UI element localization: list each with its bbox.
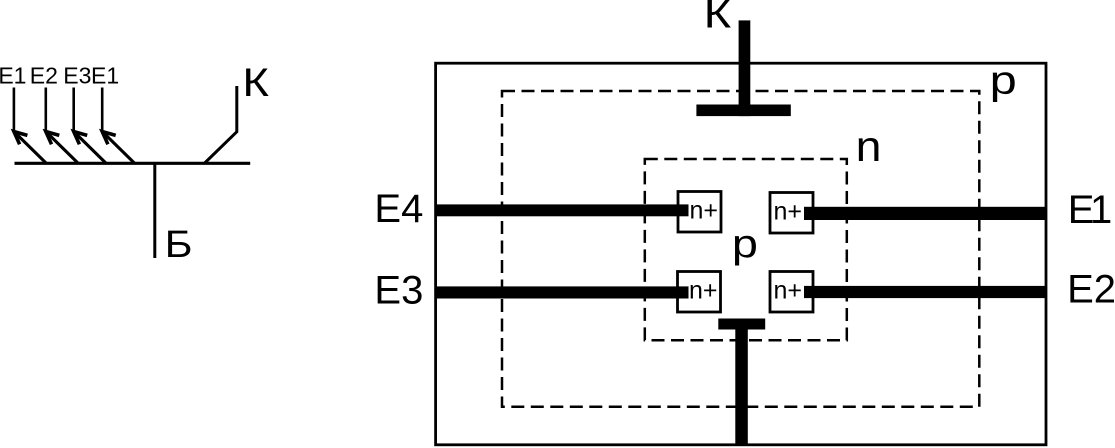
emitter lead wire 3 <box>72 88 75 131</box>
svg-text:Б: Б <box>165 222 193 265</box>
emitter metallization bar E4 <box>435 204 689 216</box>
base contact bar (vertical) <box>735 329 748 446</box>
svg-text:E3: E3 <box>63 62 91 88</box>
base contact cap (horizontal) <box>718 319 765 330</box>
collector contact bar (vertical) <box>739 20 751 116</box>
emitter arrow 1 <box>14 132 47 164</box>
n+ emitter region (bottom-left) <box>678 272 721 313</box>
emitter metallization bar E3 <box>435 286 689 298</box>
svg-text:n+: n+ <box>774 277 803 305</box>
n+ emitter region (bottom-right) <box>770 272 813 313</box>
svg-text:К: К <box>704 0 732 37</box>
collector contact bar (horizontal) <box>696 105 790 117</box>
svg-text:E4: E4 <box>374 187 423 231</box>
svg-text:E1: E1 <box>0 62 26 88</box>
base lead wire <box>153 163 156 258</box>
n epitaxial region (dashed) <box>502 91 979 407</box>
p base region (dashed) <box>645 159 847 340</box>
svg-text:p: p <box>990 59 1017 103</box>
emitter arrow 4 <box>102 132 135 164</box>
emitter lead wire 2 <box>44 88 47 131</box>
svg-text:К: К <box>242 61 269 106</box>
svg-text:E1: E1 <box>91 62 119 88</box>
emitter metallization bar E1 <box>804 207 1046 220</box>
p substrate outline (right structure) <box>436 63 1046 445</box>
emitter metallization bar E2 <box>804 286 1046 298</box>
collector lead wire <box>205 86 237 163</box>
svg-text:n+: n+ <box>689 277 718 305</box>
n+ emitter region (top-left) <box>678 192 721 233</box>
svg-text:E1: E1 <box>1068 188 1111 232</box>
emitter arrow 3 <box>74 132 107 164</box>
svg-text:n+: n+ <box>690 197 719 225</box>
svg-text:n+: n+ <box>774 198 803 226</box>
n+ emitter region (top-right) <box>770 193 813 234</box>
svg-text:E3: E3 <box>374 269 423 313</box>
svg-text:E2: E2 <box>30 62 58 88</box>
emitter arrow 2 <box>46 132 79 164</box>
emitter lead wire 1 <box>13 88 16 131</box>
emitter lead wire 4 <box>101 88 104 131</box>
svg-text:n: n <box>856 123 882 171</box>
base line (wire) <box>15 162 251 165</box>
svg-text:p: p <box>732 222 758 266</box>
svg-text:E2: E2 <box>1067 268 1115 312</box>
